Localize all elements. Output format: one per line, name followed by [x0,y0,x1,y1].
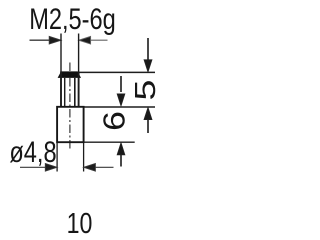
stud chamfer (black band) [58,71,81,78]
svg-text:10: 10 [67,206,93,239]
svg-text:6: 6 [97,111,131,131]
dimension 6 bottom arrow [117,143,125,167]
right extension line from stud top [79,71,155,73]
thread root line right [74,78,76,106]
right extension line from cylinder top [84,106,155,108]
svg-text:M2,5-6g: M2,5-6g [29,3,116,36]
diameter extension line right [83,143,85,172]
dimension 6 top arrow [117,76,125,106]
cylinder body outline [57,107,84,142]
dimension 5 bottom arrow [144,108,152,133]
thread dimension right arrow [79,36,108,44]
thread dimension left arrow [30,36,62,44]
dimension 5 top arrow [144,38,152,72]
centerline (dash-dot) [69,63,71,150]
thread extension line right [78,34,80,72]
diameter dimension left arrow [20,164,57,172]
right extension line from cylinder bottom [84,141,134,143]
diameter extension line left [56,143,58,172]
thread root line left [64,78,66,106]
svg-text:ø4,8: ø4,8 [9,135,56,168]
thread extension line left [60,34,62,72]
diameter dimension right arrow [84,164,114,172]
svg-text:5: 5 [130,80,162,101]
stud right edge [78,72,80,107]
stud left edge [60,72,62,107]
